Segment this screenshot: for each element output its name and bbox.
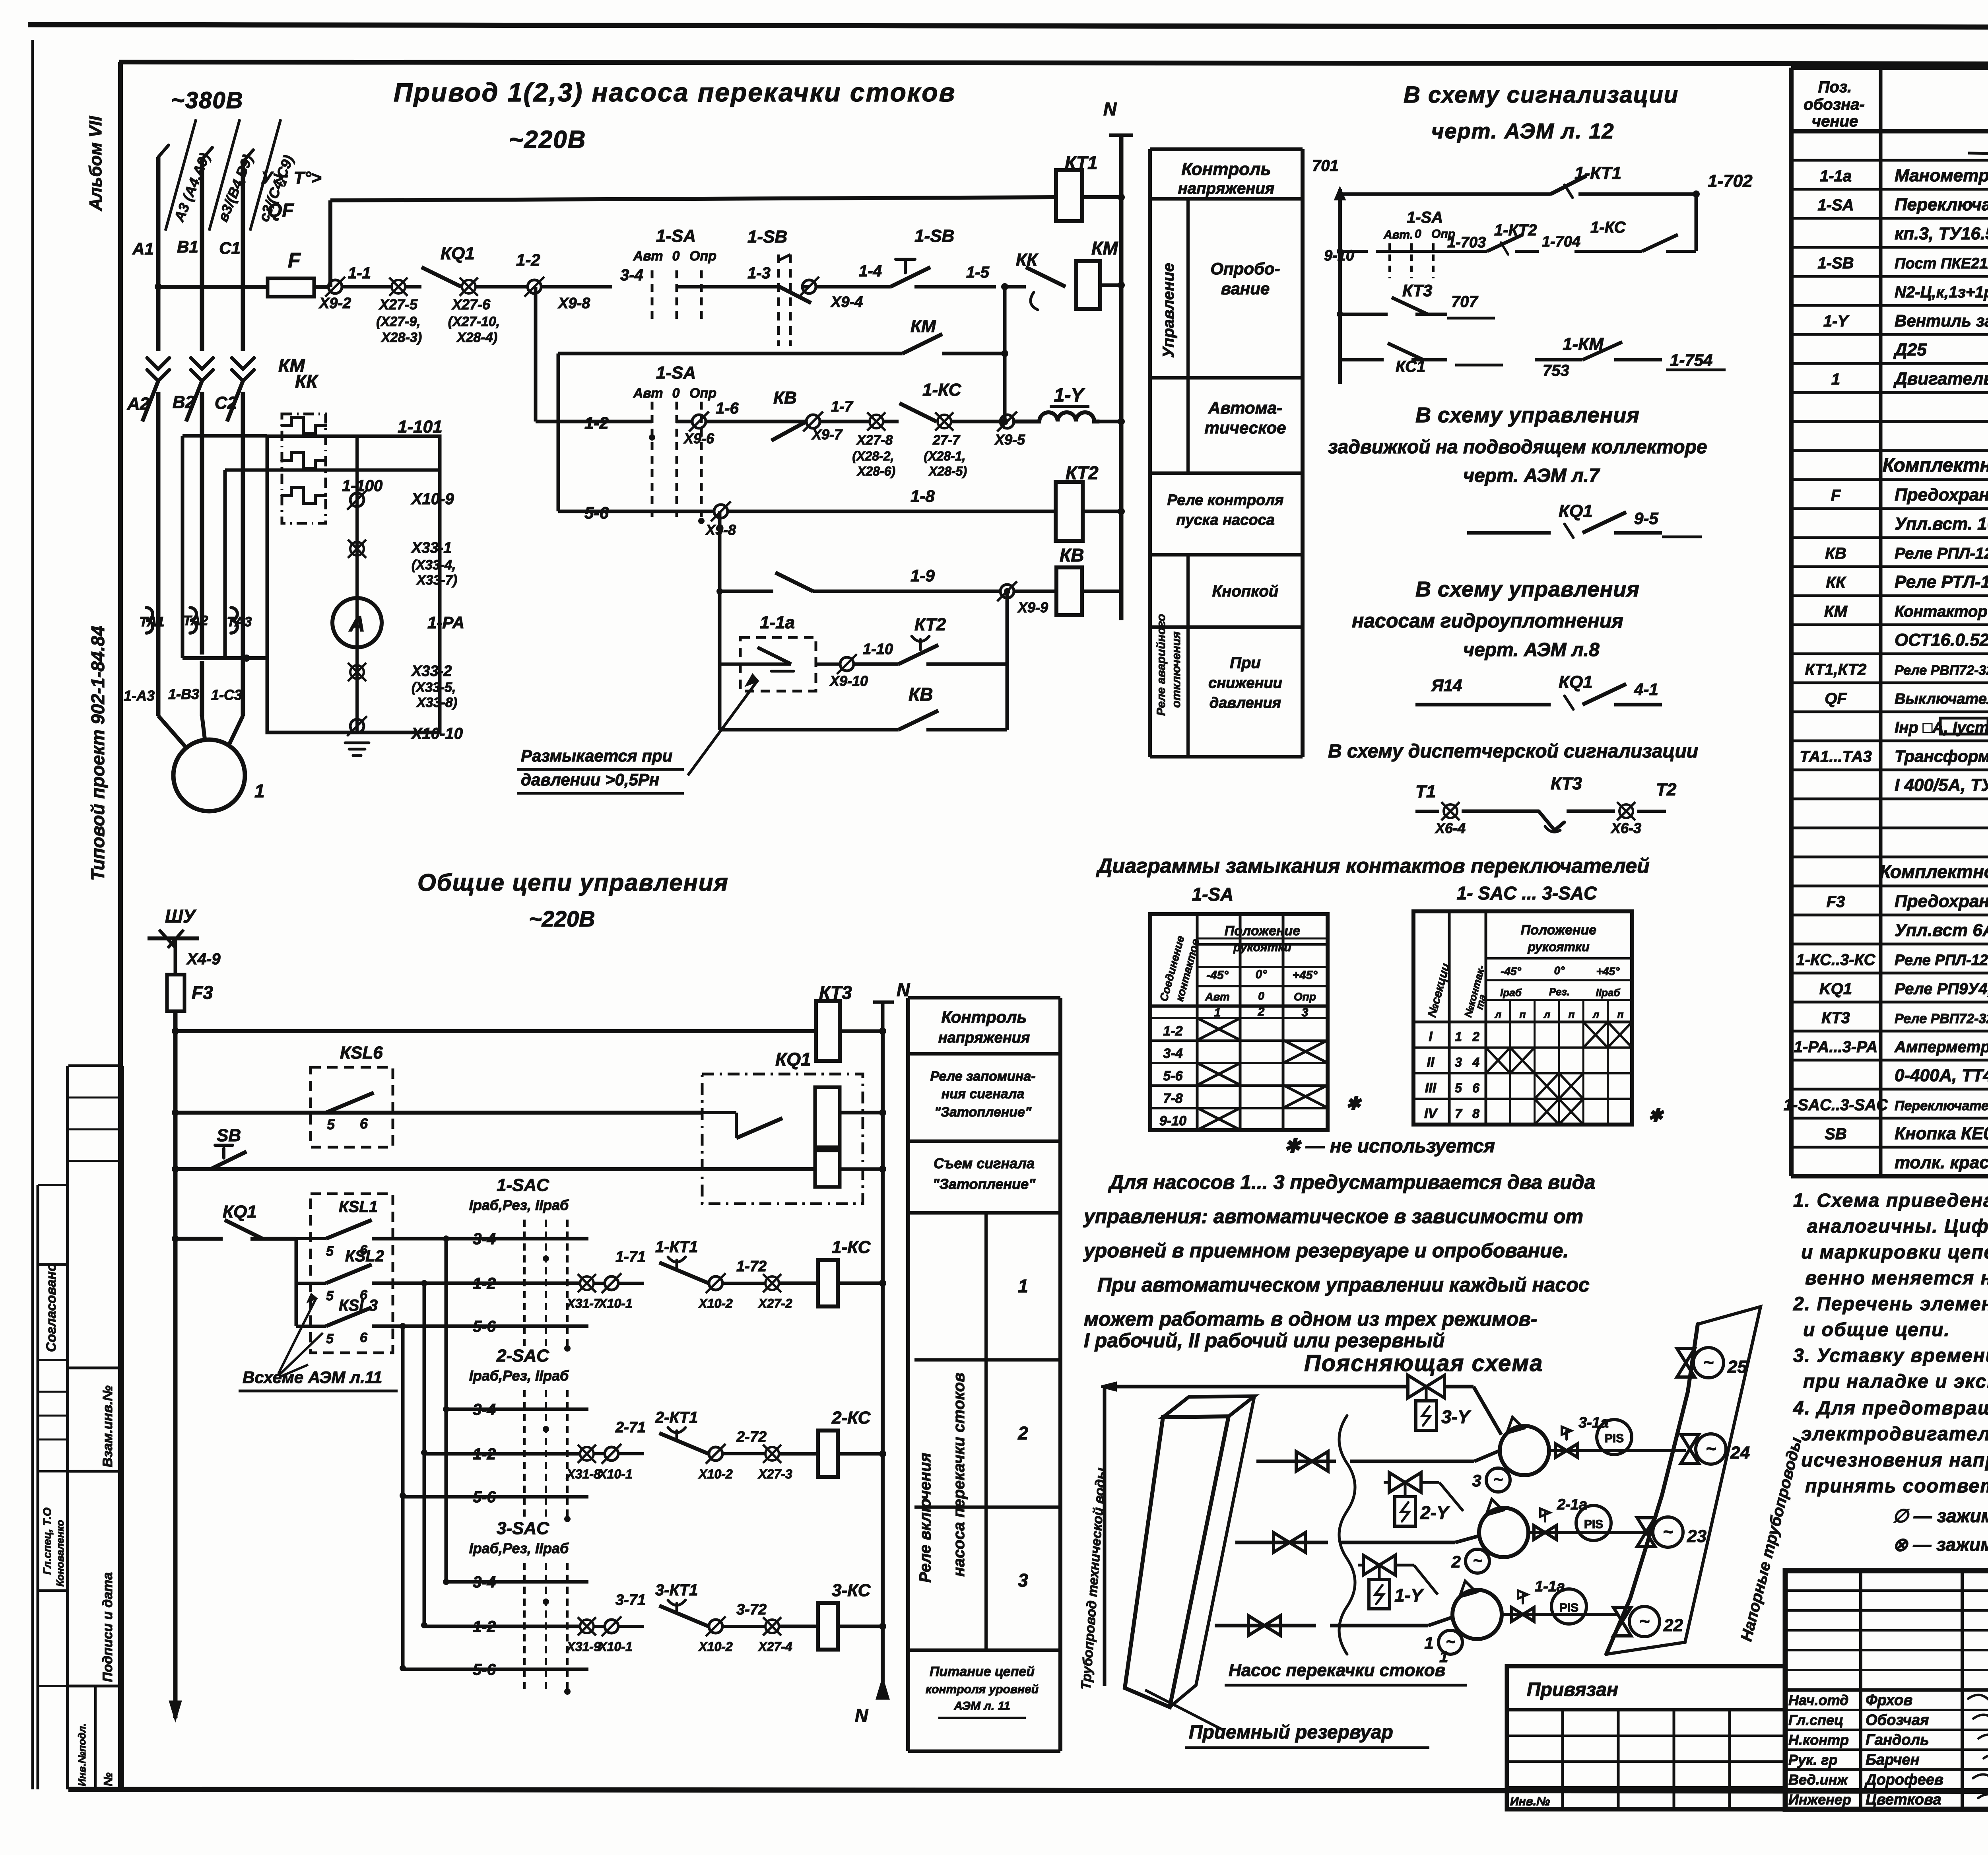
svg-text:чение: чение: [1812, 113, 1858, 130]
svg-text:Вентиль запорный 15кч838рсвм,2: Вентиль запорный 15кч838рсвм,220В,: [1895, 311, 1988, 330]
svg-text:3-4: 3-4: [1163, 1046, 1182, 1061]
svg-text:При: При: [1230, 654, 1261, 672]
svg-text:3: 3: [1302, 1006, 1309, 1019]
svg-text:~: ~: [1703, 1353, 1714, 1372]
svg-text:Реле РВП72-3221-00УХЛ4,U~220В,: Реле РВП72-3221-00УХЛ4,U~220В,ТУ16.523.4…: [1895, 663, 1988, 678]
svg-text:КSL1: КSL1: [339, 1198, 378, 1216]
svg-text:1-4: 1-4: [859, 262, 882, 280]
svg-text:PIS: PIS: [1584, 1518, 1603, 1531]
svg-text:Предохранитель ПРС-6УЗ-П,: Предохранитель ПРС-6УЗ-П,: [1895, 892, 1988, 911]
svg-text:1-Y: 1-Y: [1394, 1585, 1425, 1606]
svg-text:Т1: Т1: [1415, 782, 1436, 801]
svg-text:1-КМ: 1-КМ: [1563, 334, 1604, 354]
svg-text:Х31-8: Х31-8: [566, 1467, 601, 1481]
svg-text:2: 2: [1472, 1029, 1479, 1044]
svg-text:Опр: Опр: [689, 249, 716, 264]
svg-text:Реле РП9У4, U~220В, ТУ16.523.: Реле РП9У4, U~220В, ТУ16.523.072-75: [1895, 980, 1988, 998]
svg-text:Х10-10: Х10-10: [411, 725, 463, 742]
svg-text:Х31-7: Х31-7: [566, 1296, 602, 1311]
svg-text:Контактор КТ60□3УЗ, U~220В, Вк: Контактор КТ60□3УЗ, U~220В, Вк 2з,2р: [1895, 603, 1988, 620]
svg-text:1-10: 1-10: [863, 641, 893, 658]
svg-text:2: 2: [1017, 1423, 1028, 1443]
svg-text:АЭМ л. 11: АЭМ л. 11: [953, 1700, 1010, 1713]
svg-text:Х31-9: Х31-9: [566, 1639, 601, 1654]
svg-text:1-SA: 1-SA: [1407, 209, 1443, 226]
svg-text:2. Перечень элементов привед: 2. Перечень элементов приведен на один н…: [1793, 1294, 1988, 1315]
svg-text:"Затопление": "Затопление": [934, 1105, 1032, 1120]
svg-text:Опр: Опр: [689, 386, 716, 401]
svg-text:1-SB: 1-SB: [747, 227, 787, 247]
svg-text:III: III: [1425, 1080, 1437, 1096]
svg-text:Х10-9: Х10-9: [411, 490, 454, 508]
svg-text:F3: F3: [192, 982, 213, 1003]
svg-text:насосам гидроуплотнения: насосам гидроуплотнения: [1352, 610, 1623, 632]
svg-text:КQ1: КQ1: [775, 1049, 811, 1070]
svg-text:2-КТ1: 2-КТ1: [655, 1409, 698, 1426]
svg-text:1-8: 1-8: [911, 487, 935, 505]
svg-text:Iраб,Рез, IIраб: Iраб,Рез, IIраб: [469, 1540, 569, 1556]
svg-text:напряжения: напряжения: [938, 1029, 1030, 1046]
svg-text:1-703: 1-703: [1447, 234, 1486, 251]
svg-text:+45°: +45°: [1596, 965, 1620, 977]
svg-text:насоса перекачки стоков: насоса перекачки стоков: [950, 1373, 968, 1577]
svg-text:Кнопкой: Кнопкой: [1212, 583, 1279, 600]
svg-text:КТ2: КТ2: [1066, 462, 1099, 483]
svg-text:22: 22: [1663, 1616, 1683, 1635]
svg-text:1-SAC..3-SAC: 1-SAC..3-SAC: [1784, 1096, 1888, 1114]
svg-text:PIS: PIS: [1605, 1432, 1624, 1445]
svg-text:3-КТ1: 3-КТ1: [655, 1581, 698, 1599]
svg-text:Размыкается при: Размыкается при: [521, 746, 672, 765]
svg-text:~: ~: [1493, 1471, 1503, 1488]
svg-text:Д25: Д25: [1893, 340, 1927, 359]
svg-text:1. Схема приведена для привода: 1. Схема приведена для привода 1. Для пр…: [1793, 1190, 1988, 1211]
svg-text:Общие цепи управления: Общие цепи управления: [417, 869, 729, 896]
svg-text:Пост ПКЕ212-2УЗ,3/4, N1-Ц,з,1з: Пост ПКЕ212-2УЗ,3/4, N1-Ц,з,1з+1р,"Пуск": [1895, 255, 1988, 272]
svg-text:Х28-6): Х28-6): [856, 464, 895, 478]
svg-text:КВ: КВ: [1825, 545, 1846, 562]
svg-text:Инв.№подл.: Инв.№подл.: [76, 1723, 88, 1786]
svg-text:N: N: [897, 979, 910, 1000]
svg-text:Взам.инв.№: Взам.инв.№: [100, 1385, 115, 1467]
svg-text:может работать в одном из: может работать в одном из трех режимов-: [1084, 1308, 1537, 1330]
svg-text:Комплектное устройство, щит ЩУ: Комплектное устройство, щит ЩУ: [1883, 455, 1988, 476]
svg-text:При автоматическом управлении: При автоматическом управлении каждый нас…: [1097, 1274, 1590, 1296]
svg-text:SB: SB: [1825, 1125, 1847, 1143]
svg-text:3-72: 3-72: [736, 1601, 767, 1618]
svg-text:2-1а: 2-1а: [1557, 1496, 1587, 1513]
svg-text:п: п: [1520, 1008, 1526, 1020]
svg-text:отключения: отключения: [1170, 631, 1183, 708]
svg-text:КТ2: КТ2: [914, 615, 946, 634]
svg-text:F: F: [288, 249, 301, 272]
svg-text:1-КТ1: 1-КТ1: [655, 1238, 698, 1256]
svg-text:~380В: ~380В: [171, 87, 244, 113]
svg-text:IV: IV: [1424, 1106, 1438, 1121]
svg-text:Реле РПЛ-12204,U~220В,ТУ16.523: Реле РПЛ-12204,U~220В,ТУ16.523.554-78: [1895, 545, 1988, 562]
svg-text:✱ — не используется: ✱ — не используется: [1284, 1136, 1495, 1157]
svg-text:кп.3, ТУ16.526,308-77: кп.3, ТУ16.526,308-77: [1895, 224, 1988, 243]
svg-text:~: ~: [1706, 1439, 1716, 1459]
svg-text:Х33-1: Х33-1: [411, 540, 452, 556]
svg-text:Коноваленко: Коноваленко: [54, 1520, 66, 1587]
svg-text:тическое: тическое: [1204, 418, 1286, 437]
svg-text:23: 23: [1687, 1527, 1706, 1546]
svg-text:0-400А, ТТ400/5А, ТУ25.04.372: 0-400А, ТТ400/5А, ТУ25.04.3720-79: [1895, 1066, 1988, 1085]
svg-text:А: А: [348, 611, 365, 636]
svg-text:В схему управления: В схему управления: [1415, 577, 1640, 601]
svg-text:1: 1: [1439, 1648, 1448, 1666]
svg-text:ТА3: ТА3: [227, 614, 252, 629]
svg-text:7: 7: [1455, 1107, 1463, 1121]
svg-text:В схему диспетчерской сигнализ: В схему диспетчерской сигнализации: [1328, 741, 1698, 762]
svg-text:Переключатель УП5312-С45УЗ,ТУ1: Переключатель УП5312-С45УЗ,ТУ16.524.074-…: [1895, 1098, 1988, 1113]
svg-text:аналогичны. Цифра 1 в левой ч: аналогичны. Цифра 1 в левой части обозна…: [1807, 1216, 1988, 1237]
svg-text:Съем сигнала: Съем сигнала: [934, 1155, 1035, 1171]
svg-text:3-КС: 3-КС: [832, 1581, 871, 1600]
svg-text:Рез.: Рез.: [1549, 986, 1570, 998]
svg-text:КМ: КМ: [1091, 238, 1118, 258]
svg-text:6: 6: [360, 1330, 368, 1345]
svg-text:1-2: 1-2: [516, 251, 540, 269]
svg-text:3. Уставку времени реле КТ2 п: 3. Уставку времени реле КТ2 принять 5с, …: [1793, 1345, 1988, 1366]
svg-text:Двигатель 4А: Двигатель 4А: [1893, 369, 1988, 388]
svg-text:при наладке и эксплуатации.: при наладке и эксплуатации.: [1803, 1371, 1988, 1392]
svg-text:1-6: 1-6: [716, 400, 739, 417]
svg-text:(Х27-10,: (Х27-10,: [448, 314, 500, 329]
svg-text:принять соответственно: принять соответственно 3,7 и 12 с: [1805, 1476, 1988, 1497]
svg-text:~: ~: [1473, 1552, 1482, 1569]
svg-text:753: 753: [1543, 362, 1569, 379]
svg-text:1-SA: 1-SA: [656, 226, 696, 246]
svg-text:1-100: 1-100: [342, 477, 382, 495]
svg-text:0: 0: [672, 249, 680, 264]
svg-text:3: 3: [1472, 1471, 1481, 1490]
svg-text:Выключатель А37□6ФУЗ, U~380В,: Выключатель А37□6ФУЗ, U~380В, Iн□А,: [1895, 691, 1988, 707]
svg-text:Барчен: Барчен: [1866, 1752, 1920, 1768]
svg-text:2-Y: 2-Y: [1420, 1502, 1450, 1523]
svg-text:Х10-2: Х10-2: [698, 1639, 733, 1654]
svg-text:Трансформатор тока ТК-20-1У: Трансформатор тока ТК-20-1УЗ,: [1895, 747, 1988, 765]
svg-text:✱: ✱: [1346, 1094, 1362, 1113]
svg-text:Iраб: Iраб: [1500, 987, 1522, 998]
svg-text:(Х28-1,: (Х28-1,: [924, 449, 966, 463]
svg-text:6: 6: [360, 1288, 368, 1303]
svg-text:SВ: SВ: [217, 1126, 241, 1145]
svg-text:1-КС..3-КС: 1-КС..3-КС: [1796, 951, 1875, 969]
svg-text:PIS: PIS: [1559, 1601, 1578, 1614]
svg-text:6: 6: [360, 1115, 368, 1132]
svg-text:1-SB: 1-SB: [914, 226, 954, 246]
svg-text:Iраб,Рез, IIраб: Iраб,Рез, IIраб: [469, 1197, 569, 1213]
svg-text:Положение: Положение: [1225, 923, 1300, 938]
svg-text:КТ3: КТ3: [1402, 281, 1432, 300]
svg-text:1: 1: [1424, 1634, 1433, 1652]
svg-text:I рабочий, II рабочий или ре: I рабочий, II рабочий или резервный: [1084, 1329, 1445, 1352]
svg-text:5: 5: [326, 1288, 334, 1303]
svg-text:2-КС: 2-КС: [831, 1408, 871, 1428]
svg-text:(Х33-5,: (Х33-5,: [412, 680, 456, 695]
svg-text:KQ1: KQ1: [1819, 980, 1852, 998]
svg-text:Реле аварийного: Реле аварийного: [1155, 614, 1168, 716]
svg-text:1-РА: 1-РА: [427, 613, 464, 632]
svg-text:N2-Ц,к,1з+1р,"Стоп", ТУ16.526.: N2-Ц,к,1з+1р,"Стоп", ТУ16.526.216-71: [1895, 284, 1988, 301]
svg-text:⊗ — зажимы шкафа ШУС: ⊗ — зажимы шкафа ШУС: [1893, 1534, 1988, 1555]
svg-text:уровней в приемном резервуаре: уровней в приемном резервуаре и опробова…: [1083, 1239, 1569, 1262]
svg-text:рукоятки: рукоятки: [1233, 941, 1291, 954]
svg-text:Х10-1: Х10-1: [598, 1467, 632, 1481]
svg-text:и общие цепи.: и общие цепи.: [1803, 1319, 1950, 1340]
svg-text:9-10: 9-10: [1159, 1113, 1186, 1129]
svg-text:4-1: 4-1: [1634, 680, 1658, 699]
svg-text:-45°: -45°: [1501, 965, 1521, 977]
svg-text:КТ1: КТ1: [1065, 152, 1098, 173]
svg-text:1-754: 1-754: [1670, 351, 1712, 369]
svg-text:Авт.: Авт.: [1383, 228, 1413, 241]
svg-text:Х9-10: Х9-10: [829, 673, 868, 689]
svg-text:Автома-: Автома-: [1208, 398, 1282, 417]
svg-text:25: 25: [1727, 1357, 1747, 1377]
svg-text:КВ: КВ: [909, 684, 933, 705]
svg-text:N: N: [855, 1705, 868, 1726]
svg-text:Н.контр: Н.контр: [1788, 1732, 1849, 1748]
svg-text:1-702: 1-702: [1708, 171, 1753, 191]
svg-text:0: 0: [1415, 227, 1421, 241]
svg-text:напряжения: напряжения: [1178, 180, 1275, 197]
svg-text:Х4-9: Х4-9: [186, 950, 221, 968]
svg-text:Типовой проект 902-1-84.84: Типовой проект 902-1-84.84: [87, 626, 108, 881]
svg-text:КQ1: КQ1: [1559, 672, 1593, 692]
svg-text:обозна-: обозна-: [1804, 96, 1865, 113]
svg-text:Х28-5): Х28-5): [928, 464, 967, 478]
svg-text:24: 24: [1730, 1443, 1750, 1463]
svg-text:27-7: 27-7: [932, 433, 961, 448]
svg-text:л: л: [1592, 1008, 1599, 1020]
svg-text:II: II: [1427, 1055, 1435, 1070]
svg-text:Кнопка КЕ011УЗ, исполн.4,: Кнопка КЕ011УЗ, исполн.4,: [1895, 1124, 1988, 1143]
svg-text:Манометр электроконтактный ЭКМ: Манометр электроконтактный ЭКМ-1У: [1895, 166, 1988, 185]
svg-text:~220В: ~220В: [529, 906, 595, 931]
svg-text:Упл.вст 6А, ТУ16.522.112-74: Упл.вст 6А, ТУ16.522.112-74: [1895, 921, 1988, 940]
svg-text:Х28-3): Х28-3): [381, 330, 422, 345]
svg-text:Инв.№: Инв.№: [1510, 1795, 1550, 1808]
svg-text:Х27-4: Х27-4: [757, 1639, 792, 1654]
svg-text:Подписи и дата: Подписи и дата: [100, 1572, 115, 1682]
svg-text:Авт: Авт: [1205, 991, 1230, 1003]
svg-text:Переключатель ПКП25-50-57-УЗ,: Переключатель ПКП25-50-57-УЗ,: [1895, 195, 1988, 214]
svg-text:В2: В2: [173, 392, 195, 412]
svg-text:701: 701: [1312, 157, 1339, 175]
svg-text:Реле РТЛ-100804, ТУ16.523.549: Реле РТЛ-100804, ТУ16.523.549-78: [1895, 572, 1988, 592]
svg-text:(Х33-4,: (Х33-4,: [412, 557, 456, 573]
svg-text:КQ1: КQ1: [1559, 501, 1593, 521]
svg-text:3-Y: 3-Y: [1441, 1406, 1472, 1427]
svg-text:Реле РВП72-3222-00УХЛ4,U~220В,: Реле РВП72-3222-00УХЛ4,U~220В,ТУ16.523.4…: [1895, 1011, 1988, 1026]
svg-text:Х6-3: Х6-3: [1610, 820, 1641, 836]
svg-text:Дорофеев: Дорофеев: [1864, 1771, 1943, 1788]
svg-text:Поз.: Поз.: [1818, 78, 1852, 96]
svg-text:КТ3: КТ3: [819, 982, 852, 1003]
svg-text:3-71: 3-71: [615, 1592, 646, 1608]
svg-text:6: 6: [1472, 1081, 1479, 1095]
svg-text:Привязан: Привязан: [1527, 1679, 1618, 1700]
svg-text:F3: F3: [1827, 893, 1845, 911]
svg-text:Х27-2: Х27-2: [757, 1296, 792, 1311]
svg-text:~: ~: [1663, 1522, 1673, 1542]
svg-text:Диаграммы замыкания контакто: Диаграммы замыкания контактов переключат…: [1096, 855, 1650, 878]
svg-text:3: 3: [1018, 1570, 1028, 1591]
svg-text:Х27-8: Х27-8: [856, 433, 893, 448]
svg-text:задвижкой на подводящем коллек: задвижкой на подводящем коллекторе: [1328, 437, 1707, 458]
svg-text:2-71: 2-71: [615, 1419, 646, 1436]
svg-text:контроля уровней: контроля уровней: [926, 1683, 1039, 1696]
svg-text:Цветкова: Цветкова: [1866, 1791, 1941, 1808]
svg-text:рукоятки: рукоятки: [1527, 940, 1589, 954]
svg-text:Х27-6: Х27-6: [451, 296, 491, 313]
svg-text:исчезновения напряжения, вы: исчезновения напряжения, выдержки времен…: [1801, 1450, 1988, 1471]
svg-text:давлении >0,5Рн: давлении >0,5Рн: [521, 770, 659, 789]
svg-text:5: 5: [326, 1331, 334, 1346]
svg-text:4. Для предотвращения о: 4. Для предотвращения одновременного сам…: [1793, 1398, 1988, 1419]
svg-text:ОСТ16.0.524 001-72: ОСТ16.0.524 001-72: [1895, 630, 1988, 650]
svg-text:В схему управления: В схему управления: [1415, 403, 1640, 427]
svg-text:1: 1: [254, 781, 265, 801]
svg-text:Для насосов 1... 3 предусмат: Для насосов 1... 3 предусматривается два…: [1108, 1171, 1596, 1193]
svg-text:1-SB: 1-SB: [1817, 254, 1854, 272]
svg-text:1-5: 1-5: [966, 264, 990, 281]
svg-text:5: 5: [326, 1244, 334, 1259]
svg-text:Х33-7): Х33-7): [416, 573, 457, 588]
svg-text:Т2: Т2: [1656, 780, 1677, 799]
svg-text:I 400/5А, ТУ 16.517.442-75: I 400/5А, ТУ 16.517.442-75: [1895, 775, 1988, 795]
svg-text:2: 2: [1258, 1005, 1265, 1018]
svg-text:ТА2: ТА2: [183, 613, 208, 628]
svg-text:ШУ: ШУ: [165, 906, 197, 927]
svg-text:2-SAC: 2-SAC: [496, 1346, 549, 1366]
svg-text:1-КС: 1-КС: [922, 380, 962, 400]
svg-text:В1: В1: [177, 237, 198, 256]
svg-text:Обозчая: Обозчая: [1866, 1712, 1929, 1729]
svg-text:л: л: [1494, 1008, 1501, 1020]
svg-text:8: 8: [1472, 1107, 1479, 1121]
svg-text:2-72: 2-72: [736, 1429, 767, 1445]
svg-text:5: 5: [327, 1116, 335, 1132]
svg-text:Х33-8): Х33-8): [416, 695, 457, 710]
svg-text:IIраб: IIраб: [1596, 987, 1621, 998]
svg-text:Х10-2: Х10-2: [698, 1296, 733, 1311]
svg-text:Х10-1: Х10-1: [598, 1296, 632, 1311]
svg-text:N: N: [1103, 99, 1117, 119]
svg-text:1-А3: 1-А3: [124, 688, 155, 704]
svg-text:I: I: [1429, 1029, 1433, 1044]
svg-text:Х27-5: Х27-5: [379, 296, 418, 313]
svg-text:1: 1: [1214, 1006, 1221, 1019]
svg-text:0: 0: [672, 386, 680, 401]
svg-text:А2: А2: [127, 394, 150, 414]
svg-text:"Затопление": "Затопление": [933, 1176, 1036, 1192]
svg-text:Х9-6: Х9-6: [683, 430, 714, 447]
svg-text:1-Y: 1-Y: [1823, 313, 1850, 330]
svg-text:Опробо-: Опробо-: [1210, 259, 1280, 278]
svg-text:Х9-8: Х9-8: [557, 295, 590, 312]
svg-text:Управление: Управление: [1160, 263, 1177, 358]
svg-text:1-1а: 1-1а: [1535, 1578, 1565, 1595]
svg-text:1-7: 1-7: [831, 398, 854, 415]
svg-text:управления: автоматическое в: управления: автоматическое в зависимости…: [1083, 1205, 1583, 1228]
svg-text:1-SA: 1-SA: [656, 363, 696, 383]
svg-text:Привод 1(2,3) насоса перекачк: Привод 1(2,3) насоса перекачки стоков: [394, 78, 956, 107]
svg-text:Инженер: Инженер: [1788, 1791, 1851, 1808]
svg-text:Альбом VII: Альбом VII: [86, 116, 105, 211]
svg-text:Комплектное устройство, шкаф Ш: Комплектное устройство, шкаф ШУС: [1879, 861, 1988, 882]
svg-text:Х9-2: Х9-2: [318, 295, 351, 312]
svg-text:1: 1: [1831, 371, 1840, 388]
svg-text:КТ3: КТ3: [1551, 774, 1582, 793]
svg-text:КТ3: КТ3: [1821, 1009, 1850, 1027]
svg-text:707: 707: [1451, 293, 1478, 311]
svg-text:Реле контроля: Реле контроля: [1167, 492, 1284, 509]
svg-text:Х9-4: Х9-4: [830, 294, 863, 311]
svg-text:Приемный резервуар: Приемный резервуар: [1189, 1722, 1393, 1743]
svg-text:Х10-2: Х10-2: [698, 1467, 733, 1481]
svg-text:~: ~: [1639, 1612, 1650, 1631]
svg-text:1- SAC ... 3-SAC: 1- SAC ... 3-SAC: [1457, 883, 1598, 903]
svg-text:1-РА...3-РА: 1-РА...3-РА: [1794, 1038, 1878, 1056]
svg-text:Х27-3: Х27-3: [757, 1467, 792, 1481]
svg-text:1-КС: 1-КС: [1590, 219, 1626, 236]
svg-text:9-5: 9-5: [1634, 509, 1658, 528]
svg-text:ТА1: ТА1: [140, 614, 165, 629]
svg-text:Я14: Я14: [1431, 676, 1462, 695]
svg-text:КQ1: КQ1: [441, 244, 475, 263]
svg-text:С2: С2: [215, 393, 237, 413]
svg-text:У>; Т°>: У>; Т°>: [261, 168, 322, 188]
svg-text:5-6: 5-6: [1163, 1068, 1183, 1084]
svg-text:3-1а: 3-1а: [1578, 1414, 1609, 1431]
svg-text:КSL6: КSL6: [340, 1043, 383, 1062]
svg-text:Контроль: Контроль: [942, 1008, 1027, 1026]
svg-text:QF: QF: [267, 200, 294, 221]
svg-text:Х33-2: Х33-2: [411, 663, 452, 680]
svg-text:2: 2: [1451, 1552, 1460, 1571]
svg-text:1-101: 1-101: [398, 417, 443, 437]
svg-text:Вед.инж: Вед.инж: [1788, 1771, 1848, 1788]
svg-text:п: п: [1569, 1008, 1575, 1020]
svg-text:КВ: КВ: [1060, 545, 1084, 565]
svg-text:ния сигнала: ния сигнала: [942, 1086, 1025, 1101]
svg-text:1-704: 1-704: [1542, 233, 1580, 250]
svg-text:1-9: 1-9: [911, 566, 935, 585]
svg-text:Питание цепей: Питание цепей: [930, 1664, 1035, 1679]
svg-text:1-71: 1-71: [615, 1249, 646, 1265]
svg-text:1: 1: [1455, 1029, 1462, 1044]
svg-text:1-1а: 1-1а: [1820, 167, 1852, 185]
svg-text:КQ1: КQ1: [223, 1202, 257, 1222]
svg-text:черт. АЭМ л.7: черт. АЭМ л.7: [1463, 465, 1600, 486]
svg-text:Рук. гр: Рук. гр: [1788, 1752, 1838, 1768]
svg-text:(Х27-9,: (Х27-9,: [376, 314, 421, 329]
svg-text:Контроль: Контроль: [1181, 159, 1271, 179]
svg-text:1-1а: 1-1а: [760, 613, 795, 632]
svg-text:1-SA: 1-SA: [1817, 196, 1854, 214]
svg-text:КВ: КВ: [773, 388, 797, 408]
svg-text:С1: С1: [219, 239, 241, 257]
svg-text:1-В3: 1-В3: [168, 686, 199, 702]
svg-text:Всхеме АЭМ л.11: Всхеме АЭМ л.11: [243, 1368, 382, 1387]
svg-text:электродвигателей насосов: электродвигателей насосов 1... 3 после к…: [1801, 1424, 1988, 1445]
svg-text:6: 6: [360, 1243, 368, 1258]
svg-text:п: п: [1617, 1008, 1624, 1020]
